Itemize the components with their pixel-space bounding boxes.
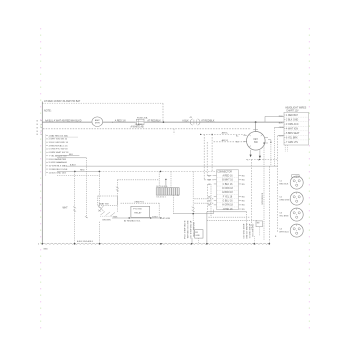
svg-text:BLK 16G GND A BL: BLK 16G GND A BL	[186, 221, 189, 240]
svg-text:A BLK: A BLK	[152, 215, 158, 218]
svg-text:7 YEL BRAKE SW: 7 YEL BRAKE SW	[49, 154, 68, 157]
svg-text:RD: RD	[242, 196, 245, 198]
svg-text:G BLU 16: G BLU 16	[222, 200, 233, 202]
svg-text:RD: RD	[242, 175, 245, 177]
svg-text:A BLK GND A BLK: A BLK GND A BLK	[77, 240, 94, 243]
svg-text:WHT BLU: WHT BLU	[279, 231, 289, 233]
svg-text:HEADLIGHT WIRES: HEADLIGHT WIRES	[285, 107, 306, 110]
svg-text:6 BRN SEAT SW 18: 6 BRN SEAT SW 18	[49, 151, 70, 154]
svg-text:RD: RD	[242, 209, 245, 211]
svg-text:GND BLK 16GA: GND BLK 16GA	[192, 222, 195, 237]
svg-text:AA BLU A WHT AB RED/WH BLKD: AA BLU A WHT AB RED/WH BLKD	[45, 119, 82, 122]
svg-text:1 RED BAT: 1 RED BAT	[286, 114, 298, 117]
svg-text:F YEL 18: F YEL 18	[223, 196, 233, 198]
svg-text:ORN PTO: ORN PTO	[134, 201, 144, 203]
svg-text:7 GRN LTS: 7 GRN LTS	[286, 142, 298, 144]
svg-text:+: +	[112, 120, 114, 124]
svg-text:GND: GND	[195, 235, 200, 237]
svg-text:10 WHT/BLK MAG: 10 WHT/BLK MAG	[49, 165, 68, 168]
svg-text:5 BRN SEAT: 5 BRN SEAT	[286, 132, 300, 135]
svg-text:AT RED/BLK SOL: AT RED/BLK SOL	[124, 220, 141, 223]
svg-text:KEY: KEY	[253, 139, 258, 141]
svg-text:RD: RD	[242, 180, 245, 182]
svg-text:B GND BLK: B GND BLK	[261, 193, 263, 205]
svg-text:6 5 4 3 2 1: 6 5 4 3 2 1	[157, 197, 166, 199]
svg-text:J PNK 18: J PNK 18	[223, 209, 233, 211]
svg-text:A BLK: A BLK	[182, 119, 189, 122]
svg-text:CHART 12V: CHART 12V	[286, 109, 299, 112]
svg-text:C BLK 16: C BLK 16	[223, 184, 234, 186]
svg-text:RELAY: RELAY	[134, 212, 142, 215]
svg-text:AT GRN: AT GRN	[163, 217, 171, 220]
svg-text:3 ORN ACC: 3 ORN ACC	[286, 123, 299, 126]
svg-text:BLK: BLK	[279, 123, 284, 125]
svg-text:B WHT 16: B WHT 16	[222, 180, 233, 182]
svg-text:12 BLK GND 16G: 12 BLK GND 16G	[49, 172, 67, 174]
svg-text:ORN GRN: ORN GRN	[279, 199, 290, 201]
svg-text:RED BLK: RED BLK	[279, 183, 289, 185]
svg-text:AT RED 1N BAT 30 AMP HR BAT: AT RED 1N BAT 30 AMP HR BAT	[44, 100, 81, 103]
svg-text:4 WHT IGN: 4 WHT IGN	[286, 129, 298, 131]
svg-text:A RED 1N: A RED 1N	[115, 119, 126, 122]
svg-text:11 RED/BLK FUSE: 11 RED/BLK FUSE	[49, 169, 68, 171]
svg-text:A WHITE AB: A WHITE AB	[131, 126, 144, 129]
svg-text:3 BLK GROUND 16: 3 BLK GROUND 16	[49, 142, 69, 144]
svg-text:FUSE 20A: FUSE 20A	[137, 116, 148, 119]
svg-text:H GRN 18: H GRN 18	[222, 205, 233, 207]
svg-text:WHT: WHT	[63, 208, 69, 210]
svg-text:GND: GND	[43, 248, 48, 250]
svg-text:BLK: BLK	[69, 154, 74, 156]
svg-text:PTO SW: PTO SW	[133, 208, 143, 210]
svg-text:BLK: BLK	[114, 216, 119, 218]
svg-text:E BRN 18: E BRN 18	[222, 192, 233, 194]
svg-text:RD: RD	[242, 184, 245, 186]
svg-text:AT RED/BLK: AT RED/BLK	[201, 119, 215, 122]
svg-text:6 YEL BRK: 6 YEL BRK	[286, 138, 298, 140]
svg-text:AT GND A BLK 16G: AT GND A BLK 16G	[189, 221, 192, 239]
svg-text:A BLK: A BLK	[70, 163, 77, 166]
svg-text:B GND A BLK 16GA: B GND A BLK 16GA	[183, 221, 186, 240]
svg-text:2 WHT IGN SW 16: 2 WHT IGN SW 16	[49, 139, 68, 141]
svg-text:5 ORN PTO SW 18: 5 ORN PTO SW 18	[49, 149, 69, 151]
svg-text:2 BLK GND: 2 BLK GND	[286, 119, 298, 121]
svg-text:CONNECTOR: CONNECTOR	[217, 172, 232, 174]
svg-text:MTR: MTR	[95, 123, 100, 125]
svg-text:SEAT SW: SEAT SW	[99, 203, 110, 206]
svg-text:RD: RD	[242, 200, 245, 202]
svg-text:GND BLK 16G: GND BLK 16G	[251, 224, 253, 238]
svg-text:A BLK GND 16G: A BLK GND 16G	[242, 224, 245, 239]
svg-text:NOTE:: NOTE:	[44, 109, 52, 112]
svg-text:RD: RD	[242, 205, 245, 207]
svg-text:YEL BRN: YEL BRN	[279, 215, 289, 217]
svg-text:1 BAT RED 1N 30A: 1 BAT RED 1N 30A	[49, 134, 69, 137]
svg-text:AM S1: AM S1	[222, 139, 229, 142]
svg-text:4 RED/WH ACC 16: 4 RED/WH ACC 16	[49, 144, 69, 147]
svg-text:D ORN 18: D ORN 18	[222, 188, 233, 190]
svg-text:AT BLK GND 16: AT BLK GND 16	[248, 224, 251, 239]
svg-text:RED: RED	[80, 170, 85, 172]
svg-text:AM B+: AM B+	[222, 132, 229, 135]
svg-text:BROWN: BROWN	[103, 220, 111, 222]
svg-text:A RED 16: A RED 16	[222, 174, 233, 177]
svg-text:8 BLU AMMETER: 8 BLU AMMETER	[49, 158, 67, 161]
svg-text:AT RED/BLK: AT RED/BLK	[147, 119, 161, 122]
